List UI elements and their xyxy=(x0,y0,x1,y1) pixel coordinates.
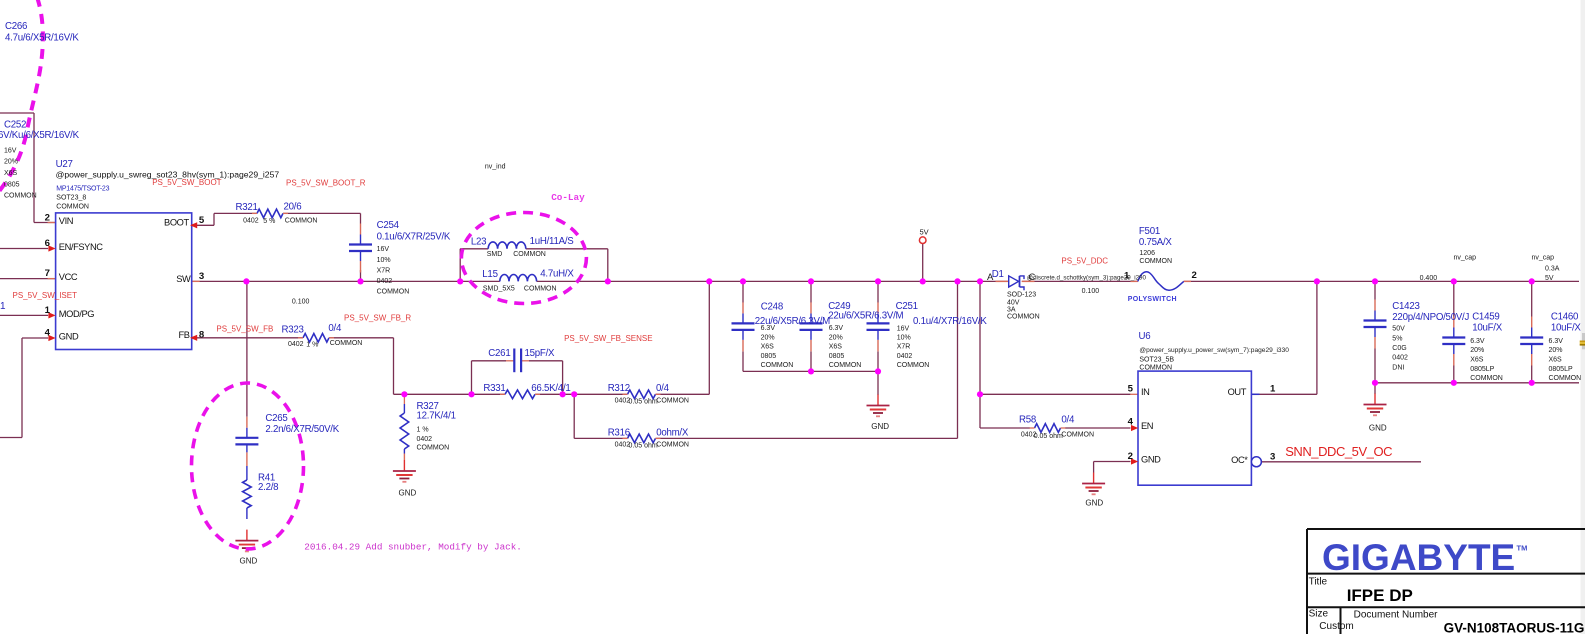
svg-text:0402: 0402 xyxy=(417,436,433,443)
svg-text:C1460: C1460 xyxy=(1551,312,1579,323)
svg-text:SOT23_5B: SOT23_5B xyxy=(1139,357,1174,364)
svg-text:COMMON: COMMON xyxy=(330,340,363,347)
svg-text:20/6: 20/6 xyxy=(284,202,302,213)
svg-text:3: 3 xyxy=(1270,451,1275,462)
svg-text:10%: 10% xyxy=(897,334,911,341)
svg-text:0.05 ohm: 0.05 ohm xyxy=(629,443,658,450)
svg-text:5 %: 5 % xyxy=(263,218,275,225)
svg-text:PS_5V_SW_BOOT_R: PS_5V_SW_BOOT_R xyxy=(286,179,366,188)
svg-text:0.05 ohm: 0.05 ohm xyxy=(629,398,658,405)
svg-text:COMMON: COMMON xyxy=(1139,258,1172,265)
svg-text:2016.04.29 Add snubber, Modify: 2016.04.29 Add snubber, Modify by Jack. xyxy=(304,542,522,553)
svg-text:4.7uH/X: 4.7uH/X xyxy=(540,269,574,280)
svg-text:6V/Ku/6/X5R/16V/K: 6V/Ku/6/X5R/16V/K xyxy=(0,130,80,141)
svg-text:COMMON: COMMON xyxy=(1470,375,1503,382)
svg-text:GND: GND xyxy=(399,489,417,498)
svg-text:nv_cap: nv_cap xyxy=(1532,255,1555,262)
svg-text:1: 1 xyxy=(1270,383,1276,394)
svg-text:COMMON: COMMON xyxy=(524,286,557,293)
svg-text:OUT: OUT xyxy=(1228,387,1247,397)
svg-text:EN: EN xyxy=(1141,421,1153,431)
svg-text:SOT23_8: SOT23_8 xyxy=(56,195,86,202)
svg-text:MP1475/TSOT-23: MP1475/TSOT-23 xyxy=(56,186,109,193)
svg-text:C266: C266 xyxy=(5,21,27,32)
svg-text:Custom: Custom xyxy=(1319,621,1353,632)
svg-text:1206: 1206 xyxy=(1139,250,1155,257)
svg-text:C265: C265 xyxy=(265,413,287,424)
svg-text:GND: GND xyxy=(59,332,79,342)
svg-text:X6S: X6S xyxy=(4,170,18,177)
svg-text:X6S: X6S xyxy=(1470,357,1484,364)
svg-text:0.1u/6/X7R/25V/K: 0.1u/6/X7R/25V/K xyxy=(377,232,451,243)
svg-text:0/4: 0/4 xyxy=(656,383,670,394)
svg-text:6.3V: 6.3V xyxy=(1549,338,1564,345)
svg-text:0/4: 0/4 xyxy=(1061,415,1075,426)
svg-text:COMMON: COMMON xyxy=(56,203,89,210)
svg-text:VIN: VIN xyxy=(59,216,73,226)
svg-text:0.100: 0.100 xyxy=(292,299,310,306)
svg-text:D1: D1 xyxy=(992,269,1004,280)
svg-text:X7R: X7R xyxy=(377,268,391,275)
svg-text:R312: R312 xyxy=(608,383,630,394)
svg-text:nv_ind: nv_ind xyxy=(485,164,506,171)
svg-text:COMMON: COMMON xyxy=(377,289,410,296)
svg-text:2.2/8: 2.2/8 xyxy=(258,482,278,493)
svg-text:0.3A: 0.3A xyxy=(1545,266,1560,273)
svg-text:10%: 10% xyxy=(377,257,391,264)
svg-text:3: 3 xyxy=(199,271,204,282)
svg-text:POLYSWITCH: POLYSWITCH xyxy=(1128,296,1177,303)
svg-text:20%: 20% xyxy=(1549,347,1563,354)
svg-text:R58: R58 xyxy=(1019,415,1036,426)
svg-text:COMMON: COMMON xyxy=(761,362,794,369)
svg-text:nv_cap: nv_cap xyxy=(1454,255,1477,262)
svg-text:SOD-123: SOD-123 xyxy=(1007,292,1036,299)
svg-text:6.3V: 6.3V xyxy=(1470,338,1485,345)
svg-text:0805LP: 0805LP xyxy=(1470,366,1494,373)
svg-text:2: 2 xyxy=(1192,270,1197,281)
svg-text:@power_supply.u_power_sw(sym_7: @power_supply.u_power_sw(sym_7):page29_i… xyxy=(1139,347,1289,354)
svg-text:20%: 20% xyxy=(829,334,843,341)
svg-text:Title: Title xyxy=(1309,577,1328,588)
svg-text:20%: 20% xyxy=(1470,347,1484,354)
svg-text:U27: U27 xyxy=(56,159,73,170)
svg-text:F501: F501 xyxy=(1139,226,1160,237)
svg-text:0402: 0402 xyxy=(377,278,393,285)
svg-text:0.75A/X: 0.75A/X xyxy=(1139,237,1173,248)
svg-text:PS_5V_SW_FB_SENSE: PS_5V_SW_FB_SENSE xyxy=(564,334,652,343)
svg-text:0/4: 0/4 xyxy=(328,323,342,334)
svg-text:C261: C261 xyxy=(488,348,510,359)
svg-text:VCC: VCC xyxy=(59,272,78,282)
svg-text:15pF/X: 15pF/X xyxy=(525,348,556,359)
svg-text:4.7u/6/X5R/16V/K: 4.7u/6/X5R/16V/K xyxy=(5,33,79,44)
svg-text:C254: C254 xyxy=(377,220,400,231)
svg-text:PS_5V_SW_FB: PS_5V_SW_FB xyxy=(216,325,273,334)
svg-text:0.400: 0.400 xyxy=(1420,275,1438,282)
svg-text:0.100: 0.100 xyxy=(1082,288,1100,295)
svg-text:1: 1 xyxy=(0,301,6,312)
svg-text:5V: 5V xyxy=(1545,275,1554,282)
svg-text:X7R: X7R xyxy=(897,344,911,351)
svg-text:PS_5V_SW_BOOT: PS_5V_SW_BOOT xyxy=(152,178,221,187)
svg-text:COMMON: COMMON xyxy=(656,442,689,449)
svg-text:GND: GND xyxy=(240,557,258,566)
svg-text:16V: 16V xyxy=(4,148,17,155)
svg-text:2: 2 xyxy=(1128,451,1133,462)
svg-text:BOOT: BOOT xyxy=(164,217,189,227)
svg-text:R316: R316 xyxy=(608,427,630,438)
svg-text:16V: 16V xyxy=(377,246,390,253)
svg-text:GND: GND xyxy=(1369,424,1387,433)
svg-text:C248: C248 xyxy=(761,302,783,313)
svg-text:4: 4 xyxy=(45,328,51,339)
svg-text:IN: IN xyxy=(1141,387,1150,397)
svg-text:SW: SW xyxy=(176,274,191,284)
svg-text:7: 7 xyxy=(45,268,50,279)
svg-text:12.7K/4/1: 12.7K/4/1 xyxy=(417,411,456,422)
svg-text:EN/FSYNC: EN/FSYNC xyxy=(59,242,103,252)
svg-text:4: 4 xyxy=(1128,416,1134,427)
svg-text:Co-Lay: Co-Lay xyxy=(551,192,585,203)
svg-text:R331: R331 xyxy=(483,383,505,394)
svg-text:GND: GND xyxy=(1141,455,1161,465)
svg-text:COMMON: COMMON xyxy=(513,251,546,258)
svg-text:1: 1 xyxy=(45,305,51,316)
svg-text:2.2n/6/X7R/50V/K: 2.2n/6/X7R/50V/K xyxy=(265,424,339,435)
svg-text:5: 5 xyxy=(199,215,205,226)
svg-text:SMD_5X5: SMD_5X5 xyxy=(483,286,515,293)
svg-text:6.3V: 6.3V xyxy=(829,325,844,332)
svg-text:COMMON: COMMON xyxy=(1007,313,1040,320)
svg-text:GND: GND xyxy=(1085,499,1103,508)
svg-text:OC*: OC* xyxy=(1231,455,1248,465)
svg-text:COMMON: COMMON xyxy=(285,217,318,224)
svg-text:PS_5V_SW_FB_R: PS_5V_SW_FB_R xyxy=(344,313,411,322)
svg-text:COMMON: COMMON xyxy=(4,193,37,200)
svg-text:GV-N108TAORUS-11GD: GV-N108TAORUS-11GD xyxy=(1444,621,1585,635)
svg-text:5: 5 xyxy=(1128,383,1134,394)
svg-text:0ohm/X: 0ohm/X xyxy=(656,427,689,438)
svg-text:0805LP: 0805LP xyxy=(1549,366,1573,373)
svg-text:L15: L15 xyxy=(482,269,497,280)
svg-text:PS_5V_DDC: PS_5V_DDC xyxy=(1061,256,1108,265)
svg-text:2: 2 xyxy=(45,213,50,224)
svg-text:C1459: C1459 xyxy=(1472,312,1499,323)
svg-text:X6S: X6S xyxy=(761,344,775,351)
svg-text:R321: R321 xyxy=(236,202,258,213)
svg-text:16V: 16V xyxy=(897,326,910,333)
svg-text:1uH/11A/S: 1uH/11A/S xyxy=(530,236,575,247)
svg-text:SNN_DDC_5V_OC: SNN_DDC_5V_OC xyxy=(1285,444,1392,459)
svg-text:0805: 0805 xyxy=(4,181,20,188)
svg-text:5%: 5% xyxy=(1392,336,1402,343)
svg-text:0402: 0402 xyxy=(288,341,304,348)
svg-text:MOD/PG: MOD/PG xyxy=(59,309,94,319)
svg-text:20%: 20% xyxy=(4,159,18,166)
svg-text:10uF/X: 10uF/X xyxy=(1472,322,1503,333)
svg-text:40V: 40V xyxy=(1007,299,1020,306)
svg-text:1: 1 xyxy=(1124,270,1130,281)
svg-text:GND: GND xyxy=(871,422,889,431)
svg-text:0402: 0402 xyxy=(1392,355,1408,362)
svg-text:Document Number: Document Number xyxy=(1354,610,1439,621)
svg-text:5V: 5V xyxy=(920,227,929,236)
svg-text:1 %: 1 % xyxy=(306,341,318,348)
svg-text:22u/6/X5R/6.3V/M: 22u/6/X5R/6.3V/M xyxy=(828,311,903,322)
svg-text:FB: FB xyxy=(179,330,190,340)
svg-text:COMMON: COMMON xyxy=(1549,375,1582,382)
svg-text:0.1u/4/X7R/16V/K: 0.1u/4/X7R/16V/K xyxy=(913,316,987,327)
svg-text:C1423: C1423 xyxy=(1392,301,1419,312)
svg-text:X6S: X6S xyxy=(1549,357,1563,364)
svg-text:COMMON: COMMON xyxy=(417,445,450,452)
svg-text:220p/4/NPO/50V/J: 220p/4/NPO/50V/J xyxy=(1392,312,1469,323)
svg-text:20%: 20% xyxy=(761,334,775,341)
svg-text:R323: R323 xyxy=(282,325,304,336)
svg-text:IFPE DP: IFPE DP xyxy=(1347,586,1413,605)
svg-text:GIGABYTE: GIGABYTE xyxy=(1322,537,1515,578)
svg-text:6.3V: 6.3V xyxy=(761,325,776,332)
svg-text:COMMON: COMMON xyxy=(656,397,689,404)
svg-text:0805: 0805 xyxy=(761,353,777,360)
svg-text:X6S: X6S xyxy=(829,344,843,351)
svg-text:COMMON: COMMON xyxy=(1139,365,1172,372)
svg-text:0402: 0402 xyxy=(243,217,259,224)
svg-text:C0G: C0G xyxy=(1392,345,1406,352)
svg-text:U6: U6 xyxy=(1139,331,1151,342)
svg-text:COMMON: COMMON xyxy=(897,362,930,369)
svg-text:SMD: SMD xyxy=(487,251,503,258)
svg-text:TM: TM xyxy=(1517,544,1528,553)
svg-text:0402: 0402 xyxy=(897,353,913,360)
svg-text:C251: C251 xyxy=(896,301,918,312)
svg-text:1 %: 1 % xyxy=(417,427,429,434)
svg-text:L23: L23 xyxy=(471,237,486,248)
svg-text:66.5K/4/1: 66.5K/4/1 xyxy=(531,383,570,394)
svg-text:Size: Size xyxy=(1309,609,1329,620)
svg-text:50V: 50V xyxy=(1392,325,1405,332)
svg-text:10uF/X: 10uF/X xyxy=(1551,322,1582,333)
svg-text:6: 6 xyxy=(45,238,50,249)
svg-text:DNI: DNI xyxy=(1392,364,1404,371)
svg-text:8: 8 xyxy=(199,330,205,341)
svg-text:0.05 ohm: 0.05 ohm xyxy=(1034,433,1063,440)
svg-text:COMMON: COMMON xyxy=(829,362,862,369)
svg-text:PS_5V_SW_ISET: PS_5V_SW_ISET xyxy=(13,291,78,300)
svg-text:COMMON: COMMON xyxy=(1061,432,1094,439)
svg-text:A: A xyxy=(987,272,994,283)
svg-text:0805: 0805 xyxy=(829,353,845,360)
